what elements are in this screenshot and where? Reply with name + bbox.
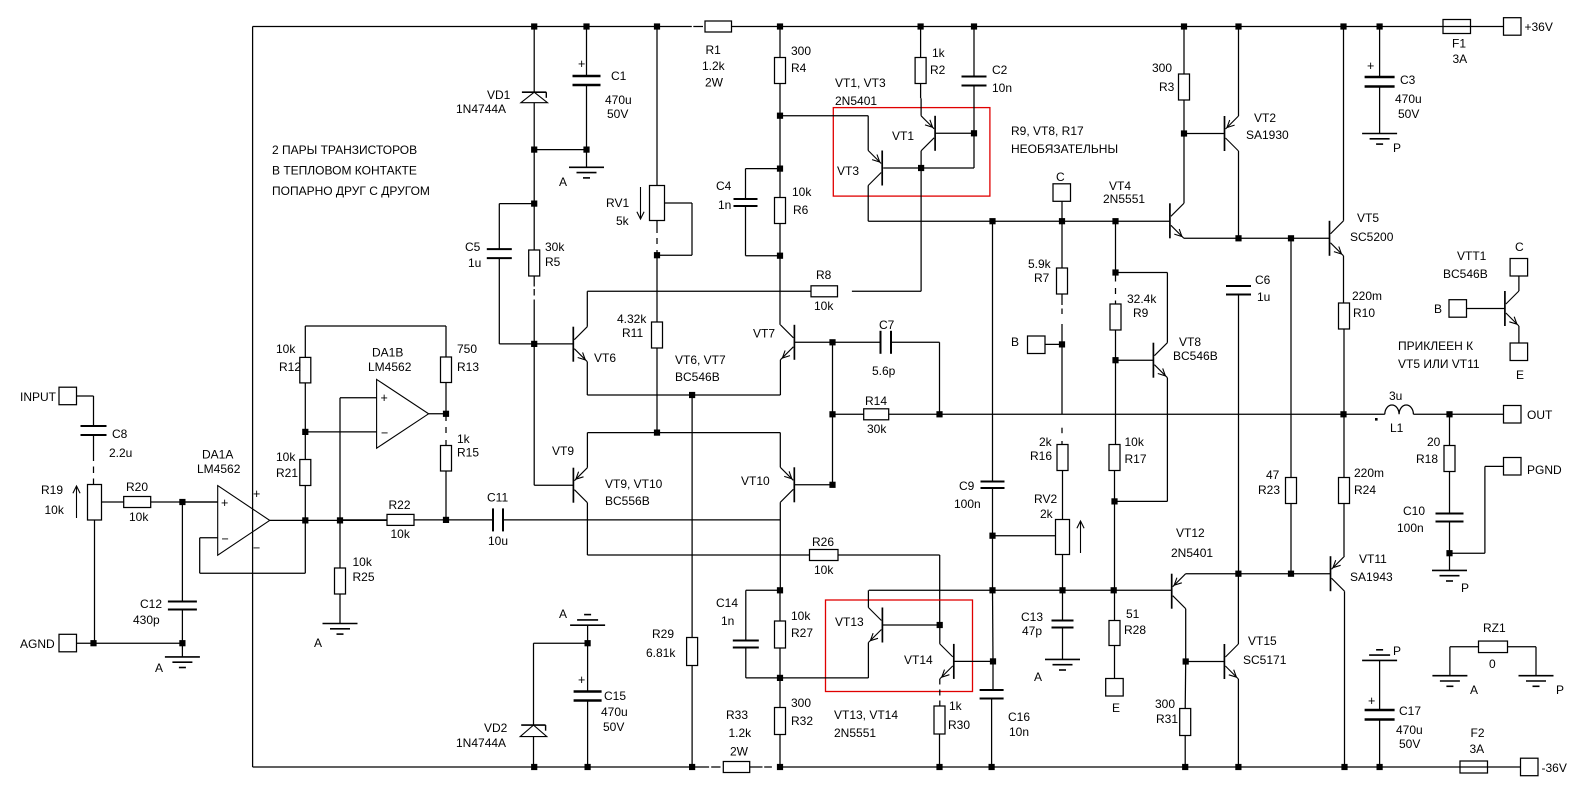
svg-text:−: − — [222, 532, 229, 546]
potentiometer RV2 2k — [993, 492, 1085, 590]
svg-text:PGND: PGND — [1527, 463, 1562, 477]
svg-text:−: − — [253, 541, 260, 555]
svg-text:+: + — [221, 496, 228, 510]
svg-text:SC5171: SC5171 — [1243, 653, 1287, 667]
svg-text:750: 750 — [457, 342, 477, 356]
svg-text:2N5401: 2N5401 — [835, 94, 877, 108]
svg-text:C10: C10 — [1403, 504, 1425, 518]
svg-text:1N4744A: 1N4744A — [456, 102, 506, 116]
svg-text:30k: 30k — [545, 240, 565, 254]
svg-text:1k: 1k — [932, 46, 946, 60]
zener diode VD2 1N4744A — [456, 721, 547, 767]
svg-text:2N5551: 2N5551 — [1103, 192, 1145, 206]
port E of VTT1 — [1510, 326, 1528, 382]
port INPUT — [20, 387, 94, 426]
wire: VT3 collector line to VT4 base — [868, 186, 1170, 225]
svg-text:470u: 470u — [601, 705, 628, 719]
svg-text:L1: L1 — [1390, 421, 1404, 435]
svg-text:10k: 10k — [353, 555, 373, 569]
transistor VT11 SA1943 — [1331, 552, 1394, 591]
label VT1,VT3 2N5401 — [835, 76, 886, 108]
label VT13,VT14 2N5551 — [834, 708, 898, 740]
svg-text:20: 20 — [1427, 435, 1441, 449]
svg-text:VT4: VT4 — [1109, 179, 1131, 193]
svg-text:+36V: +36V — [1525, 20, 1553, 34]
ground P below RZ1 right — [1519, 676, 1565, 697]
resistor R20 10k — [102, 480, 218, 524]
svg-text:R18: R18 — [1416, 452, 1438, 466]
svg-text:10k: 10k — [276, 342, 296, 356]
svg-text:VT1, VT3: VT1, VT3 — [835, 76, 886, 90]
wire: left frame border — [252, 27, 254, 768]
resistor R3 300 — [1152, 27, 1190, 134]
svg-text:2 ПАРЫ ТРАНЗИСТОРОВ: 2 ПАРЫ ТРАНЗИСТОРОВ — [272, 143, 417, 157]
wire: VT14 collector to VT13 base — [939, 625, 941, 644]
wire: R29 tail column — [691, 395, 693, 638]
svg-text:OUT: OUT — [1527, 408, 1553, 422]
ground A below RZ1 left — [1432, 676, 1478, 697]
resistor R30 1k — [934, 699, 970, 767]
resistor R24 220m — [1339, 414, 1385, 556]
potentiometer RV1 5k — [606, 27, 692, 323]
svg-text:VD2: VD2 — [484, 721, 508, 735]
svg-text:50V: 50V — [607, 107, 628, 121]
svg-text:10n: 10n — [992, 81, 1012, 95]
svg-text:5k: 5k — [616, 214, 630, 228]
svg-text:VT10: VT10 — [741, 474, 770, 488]
svg-text:2W: 2W — [705, 76, 724, 90]
svg-text:RZ1: RZ1 — [1483, 621, 1506, 635]
wire: VT12 collector to VT15 base — [1183, 609, 1225, 665]
svg-text:R20: R20 — [126, 480, 148, 494]
svg-text:B: B — [1011, 335, 1019, 349]
transistor VT2 SA1930 — [1181, 111, 1289, 151]
svg-text:R19: R19 — [41, 483, 63, 497]
wire: VT15 emitter to bottom rail — [1237, 679, 1239, 767]
svg-text:10k: 10k — [129, 510, 149, 524]
transistor VT5 SC5200 — [1330, 211, 1394, 256]
port C (bias transistor collector) — [1053, 170, 1071, 221]
resistor R5 30k — [529, 240, 566, 344]
svg-text:R1: R1 — [706, 43, 722, 57]
fuse F1 — [1443, 20, 1471, 67]
wire: VT6 base node — [499, 341, 573, 347]
svg-text:1k: 1k — [457, 432, 471, 446]
svg-text:300: 300 — [1155, 697, 1175, 711]
resistor R14 30k — [864, 394, 889, 436]
svg-text:VT7: VT7 — [753, 327, 775, 341]
svg-text:R32: R32 — [791, 714, 813, 728]
svg-text:A: A — [314, 636, 322, 650]
resistor R28 51 — [1109, 590, 1146, 678]
svg-text:P: P — [1393, 141, 1401, 155]
junction dots on top rail — [531, 23, 1383, 29]
svg-text:C8: C8 — [112, 427, 128, 441]
port PGND — [1450, 458, 1563, 554]
transistor VT9 BC556B — [552, 444, 587, 503]
note text: 2 pairs of transistors in thermal contact — [272, 143, 430, 198]
capacitor C3 470u 50V electrolytic — [1365, 27, 1422, 134]
svg-text:300: 300 — [791, 44, 811, 58]
svg-text:1u: 1u — [468, 256, 481, 270]
svg-text:R23: R23 — [1258, 483, 1280, 497]
port OUT — [1504, 406, 1554, 424]
transistor VT1 2N5401 — [892, 98, 935, 168]
note text: glued to VT5 or VT11 — [1398, 339, 1480, 371]
resistor R15 1k — [441, 414, 480, 520]
svg-text:VT13, VT14: VT13, VT14 — [834, 708, 898, 722]
wire: VT6/VT7 emitter bus — [587, 360, 780, 398]
svg-text:470u: 470u — [1395, 92, 1422, 106]
capacitor C6 1u — [1226, 273, 1271, 574]
svg-text:R28: R28 — [1124, 623, 1146, 637]
svg-text:R25: R25 — [353, 570, 375, 584]
svg-text:R9: R9 — [1133, 306, 1149, 320]
transistor VT12 2N5401 — [1171, 526, 1213, 609]
svg-text:R26: R26 — [812, 535, 834, 549]
wire: DA1B output node — [429, 411, 450, 417]
svg-text:НЕОБЯЗАТЕЛЬНЫ: НЕОБЯЗАТЕЛЬНЫ — [1011, 142, 1118, 156]
capacitor C17 470u 50V electrolytic — [1365, 694, 1423, 767]
svg-text:+: + — [1367, 59, 1374, 73]
svg-text:10k: 10k — [791, 609, 811, 623]
svg-text:220m: 220m — [1352, 289, 1382, 303]
resistor R18 20 — [1416, 414, 1455, 513]
wire: VT13 collector to lower rail — [867, 590, 869, 607]
resistor R16 2k — [1030, 435, 1068, 520]
svg-text:LM4562: LM4562 — [197, 462, 241, 476]
svg-text:R24: R24 — [1354, 483, 1376, 497]
svg-text:1N4744A: 1N4744A — [456, 736, 506, 750]
capacitor C10 100n — [1397, 504, 1464, 570]
node: R5/C5 junction — [531, 150, 537, 250]
capacitor C12 430p — [133, 502, 197, 643]
svg-text:R9, VT8, R17: R9, VT8, R17 — [1011, 124, 1084, 138]
svg-text:0: 0 — [1489, 657, 1496, 671]
svg-text:R33: R33 — [726, 708, 748, 722]
wire: VT7 base node — [794, 339, 880, 345]
capacitor C13 47p — [1021, 590, 1074, 659]
capacitor C11 10u — [487, 491, 508, 549]
wire: C11 to VT10 collector (VAS input) — [503, 519, 780, 521]
svg-text:R11: R11 — [622, 326, 643, 340]
node: R4/VT3 emitter junction — [777, 113, 783, 169]
wire: R12-R13 top link — [305, 325, 446, 327]
zener diode VD1 1N4744A — [456, 27, 548, 150]
resistor R27 10k — [775, 587, 814, 681]
svg-text:VT8: VT8 — [1179, 335, 1201, 349]
wire: VT14 base column — [992, 590, 995, 661]
wire: VT13 emitter — [780, 643, 868, 678]
ground P below C10 — [1432, 570, 1469, 595]
svg-text:R22: R22 — [389, 498, 411, 512]
svg-text:C9: C9 — [959, 479, 975, 493]
op-amp DA1B LM4562 — [368, 346, 429, 449]
node: R20 output junction — [179, 499, 185, 505]
svg-text:10k: 10k — [814, 299, 834, 313]
resistor R8 10k — [811, 268, 921, 313]
ground A below R25 — [314, 624, 358, 651]
wire: VT7 collector feed — [779, 256, 781, 325]
svg-text:R15: R15 — [457, 446, 479, 460]
svg-text:10k: 10k — [814, 563, 834, 577]
wire: VAS lower rail — [869, 587, 1172, 593]
svg-text:-36V: -36V — [1542, 761, 1567, 775]
svg-text:32.4k: 32.4k — [1127, 292, 1157, 306]
svg-text:4.32k: 4.32k — [617, 312, 647, 326]
svg-text:C6: C6 — [1255, 273, 1271, 287]
capacitor C16 10n — [980, 661, 1031, 767]
frame: red box around VT1,VT3 — [833, 108, 990, 197]
wire: VT2 collector down — [1238, 151, 1240, 238]
svg-text:VD1: VD1 — [487, 88, 511, 102]
svg-text:VT15: VT15 — [1248, 634, 1277, 648]
svg-text:R21: R21 — [276, 466, 298, 480]
wire: output mid rail — [833, 411, 1504, 417]
svg-text:C13: C13 — [1021, 610, 1043, 624]
svg-text:+: + — [381, 391, 388, 405]
svg-text:R13: R13 — [457, 360, 479, 374]
svg-text:R27: R27 — [791, 626, 813, 640]
svg-text:+: + — [578, 57, 585, 71]
wire: VT1 base to C2 node — [883, 130, 977, 168]
wire: VT10 collector to VAS — [779, 502, 781, 590]
resistor R32 300 — [775, 678, 814, 767]
svg-text:VT6: VT6 — [594, 351, 616, 365]
svg-text:47p: 47p — [1022, 624, 1042, 638]
svg-text:6.81k: 6.81k — [646, 646, 676, 660]
resistor R2 1k — [915, 27, 946, 99]
svg-text:2k: 2k — [1040, 507, 1054, 521]
svg-text:R30: R30 — [948, 718, 970, 732]
svg-text:C4: C4 — [716, 179, 732, 193]
svg-text:47: 47 — [1266, 468, 1280, 482]
svg-text:F2: F2 — [1471, 726, 1485, 740]
port B (bias transistor base) — [1011, 335, 1065, 354]
svg-text:470u: 470u — [605, 93, 632, 107]
svg-text:50V: 50V — [1398, 107, 1419, 121]
svg-text:LM4562: LM4562 — [368, 360, 412, 374]
svg-text:A: A — [1034, 670, 1042, 684]
svg-text:R17: R17 — [1125, 452, 1147, 466]
svg-text:C12: C12 — [140, 597, 162, 611]
svg-text:+: + — [578, 673, 585, 687]
svg-text:3A: 3A — [1470, 742, 1485, 756]
capacitor C1 470u 50V electrolytic — [573, 27, 632, 168]
wire: VT9 collector to R26 bus — [587, 503, 809, 555]
wire: B node to R16 — [1061, 344, 1063, 444]
svg-text:R14: R14 — [865, 394, 887, 408]
svg-text:2.2u: 2.2u — [109, 446, 132, 460]
svg-text:30k: 30k — [867, 422, 887, 436]
svg-text:10k: 10k — [792, 185, 812, 199]
potentiometer R19 10k — [41, 483, 102, 643]
svg-text:A: A — [559, 607, 567, 621]
svg-text:R5: R5 — [545, 255, 561, 269]
svg-text:VT14: VT14 — [904, 653, 933, 667]
svg-text:DA1B: DA1B — [372, 346, 403, 360]
svg-text:BC546B: BC546B — [675, 370, 720, 384]
svg-text:VT2: VT2 — [1254, 111, 1276, 125]
transistor VT13 2N5551 — [835, 608, 943, 643]
node: C15 top junction — [534, 640, 591, 725]
svg-text:C5: C5 — [465, 240, 481, 254]
ground A below C1 — [559, 167, 604, 189]
transistor VT14 2N5551 — [904, 644, 996, 679]
svg-text:10k: 10k — [391, 527, 411, 541]
resistor R4 300 — [775, 27, 812, 116]
svg-text:B: B — [1434, 302, 1442, 316]
resistor R10 220m — [1339, 256, 1383, 414]
svg-text:C17: C17 — [1399, 704, 1421, 718]
svg-text:R7: R7 — [1034, 271, 1050, 285]
svg-text:430p: 430p — [133, 613, 160, 627]
svg-text:E: E — [1112, 701, 1120, 715]
svg-text:P: P — [1461, 581, 1469, 595]
svg-text:10n: 10n — [1009, 725, 1029, 739]
resistor R17 10k — [1109, 360, 1147, 590]
port C of VTT1 — [1510, 240, 1528, 291]
svg-text:2k: 2k — [1039, 435, 1053, 449]
op-amp DA1A LM4562 — [182, 448, 269, 556]
wire: VT11 emitter from R24 — [1344, 555, 1346, 557]
resistor R26 10k — [810, 535, 940, 625]
svg-text:VT3: VT3 — [837, 164, 859, 178]
svg-text:P: P — [1393, 644, 1401, 658]
wire: VD1-C1 bottom link — [531, 147, 590, 153]
ground P flipped above C17 — [1362, 644, 1401, 710]
svg-text:C3: C3 — [1400, 73, 1416, 87]
port AGND — [20, 634, 186, 652]
svg-text:1.2k: 1.2k — [702, 59, 726, 73]
resistor R9 32.4k — [1110, 221, 1157, 360]
resistor R12 10k — [276, 326, 311, 432]
svg-text:ПРИКЛЕЕН К: ПРИКЛЕЕН К — [1398, 339, 1473, 353]
svg-text:10u: 10u — [488, 534, 508, 548]
resistor R11 4.32k — [617, 312, 663, 433]
resistor R7 5.9k — [1028, 221, 1068, 344]
transistor VT8 BC546B — [1112, 335, 1217, 378]
ground P below C3 — [1362, 134, 1401, 156]
svg-text:50V: 50V — [1399, 737, 1420, 751]
wire: VT5 collector to top rail — [1343, 27, 1345, 221]
svg-text:5.9k: 5.9k — [1028, 257, 1052, 271]
svg-text:VT1: VT1 — [892, 129, 914, 143]
wire: VT4 emitter to VT5 base — [1184, 235, 1330, 241]
wire: +36V top supply rail — [253, 26, 1504, 28]
svg-text:C14: C14 — [716, 596, 738, 610]
svg-text:300: 300 — [791, 696, 811, 710]
svg-text:DA1A: DA1A — [202, 448, 233, 462]
svg-text:RV2: RV2 — [1034, 492, 1057, 506]
svg-text:VT6, VT7: VT6, VT7 — [675, 353, 726, 367]
transistor VT15 SC5171 — [1224, 634, 1286, 679]
port B of VTT1 — [1434, 300, 1505, 318]
ground A flipped above C15 — [559, 607, 605, 643]
port +36V — [1504, 18, 1553, 36]
resistor R22 10k — [340, 498, 493, 541]
svg-text:VTT1: VTT1 — [1457, 249, 1487, 263]
svg-text:10k: 10k — [1125, 435, 1145, 449]
resistor R1 (inline top rail) — [702, 21, 732, 90]
wire: VT8 emitter to R17 — [1115, 378, 1168, 502]
wire: DA1A output — [270, 517, 387, 523]
svg-text:A: A — [1470, 683, 1478, 697]
svg-text:2W: 2W — [730, 745, 749, 759]
wire: VT11 collector to bottom rail — [1344, 591, 1346, 767]
svg-text:R6: R6 — [793, 203, 809, 217]
wire: VT7-R14-VT10 column — [829, 342, 835, 485]
svg-text:BC546B: BC546B — [1173, 349, 1218, 363]
svg-text:50V: 50V — [603, 720, 624, 734]
svg-text:R29: R29 — [652, 627, 674, 641]
svg-text:R3: R3 — [1159, 80, 1175, 94]
svg-text:C: C — [1515, 240, 1524, 254]
wire: VT9/VT10 emitter bus — [587, 430, 780, 468]
capacitor C8 2.2u — [81, 426, 133, 485]
transistor VT6 BC546B — [573, 327, 616, 365]
svg-text:R10: R10 — [1353, 306, 1375, 320]
svg-text:R16: R16 — [1030, 449, 1052, 463]
svg-text:C1: C1 — [611, 69, 627, 83]
svg-text:1u: 1u — [1257, 290, 1270, 304]
resistor R6 10k — [775, 166, 813, 259]
wire: R29 to bottom rail — [691, 666, 693, 768]
resistor R25 10k — [335, 520, 375, 623]
svg-text:C7: C7 — [879, 318, 895, 332]
svg-text:BC546B: BC546B — [1443, 267, 1488, 281]
label VT9,VT10 BC556B — [605, 477, 663, 508]
svg-text:R12: R12 — [279, 360, 301, 374]
svg-text:3A: 3A — [1453, 52, 1468, 66]
svg-text:VT5: VT5 — [1357, 211, 1379, 225]
svg-text:ПОПАРНО ДРУГ С ДРУГОМ: ПОПАРНО ДРУГ С ДРУГОМ — [272, 184, 430, 198]
svg-text:100n: 100n — [954, 497, 981, 511]
svg-text:2N5551: 2N5551 — [834, 726, 876, 740]
wire: -36V bottom supply rail — [253, 766, 1521, 768]
svg-text:10k: 10k — [45, 503, 65, 517]
resistor R29 6.81k — [646, 627, 698, 666]
svg-text:5.6p: 5.6p — [872, 364, 896, 378]
svg-text:R8: R8 — [816, 268, 832, 282]
svg-text:C16: C16 — [1008, 710, 1030, 724]
capacitor C7 5.6p — [872, 318, 940, 414]
wire: VT6 collector to R8 — [587, 291, 811, 326]
wire: VT8 collector link — [1116, 273, 1168, 343]
wire: DA1A feedback loop — [200, 520, 306, 573]
svg-text:A: A — [155, 661, 163, 675]
wire: VT4 collector to R3 node — [1183, 134, 1185, 204]
note text: R9 VT8 R17 optional — [1011, 124, 1118, 156]
svg-text:AGND: AGND — [20, 637, 55, 651]
svg-text:VT5 ИЛИ VT11: VT5 ИЛИ VT11 — [1398, 357, 1480, 371]
wire: DA1B inverting input — [302, 429, 376, 435]
svg-text:C11: C11 — [487, 491, 508, 505]
wire: DA1B noninverting input from DA1A output — [340, 398, 377, 521]
wire: VT14 emitter to R30 — [939, 679, 941, 706]
svg-text:100n: 100n — [1397, 521, 1424, 535]
ground A below C13 — [1034, 659, 1080, 684]
wire: VT9 base from R5 column — [534, 344, 573, 485]
svg-text:C2: C2 — [992, 63, 1008, 77]
svg-text:3u: 3u — [1389, 389, 1402, 403]
svg-text:R4: R4 — [791, 61, 807, 75]
svg-text:SA1943: SA1943 — [1350, 570, 1393, 584]
capacitor C15 470u 50V electrolytic — [574, 643, 628, 767]
svg-text:R2: R2 — [930, 63, 946, 77]
resistor R13 750 — [441, 326, 480, 414]
svg-text:1n: 1n — [718, 198, 731, 212]
